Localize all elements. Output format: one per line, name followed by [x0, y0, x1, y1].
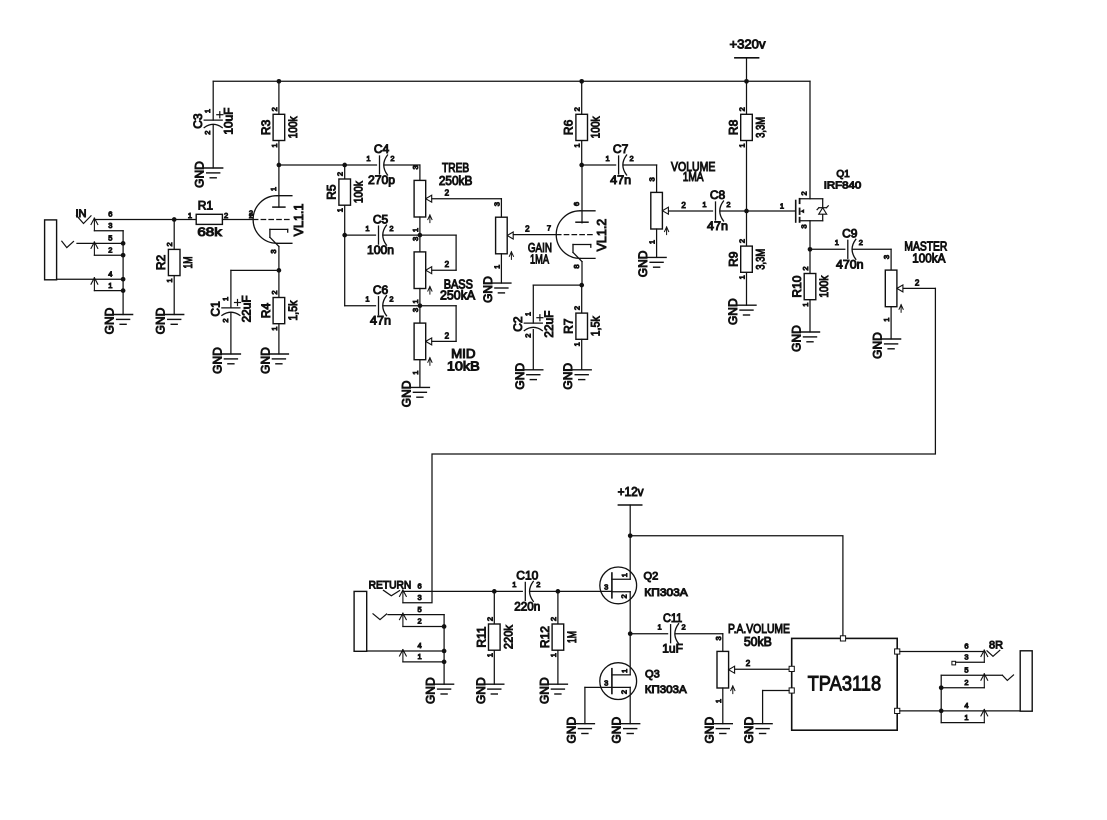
svg-text:47n: 47n: [707, 219, 728, 233]
svg-text:250kA: 250kA: [440, 288, 476, 302]
svg-text:2: 2: [738, 107, 747, 111]
svg-text:47n: 47n: [610, 173, 631, 187]
svg-text:GND: GND: [474, 677, 488, 704]
svg-text:3: 3: [604, 678, 608, 687]
svg-text:2: 2: [630, 154, 634, 163]
svg-text:1: 1: [411, 228, 420, 232]
svg-text:22uF: 22uF: [542, 311, 556, 338]
svg-text:3: 3: [648, 177, 657, 181]
svg-text:2: 2: [964, 678, 968, 687]
svg-text:1MA: 1MA: [530, 253, 549, 267]
svg-text:3: 3: [411, 308, 420, 312]
svg-text:2: 2: [682, 623, 686, 632]
svg-text:1: 1: [485, 653, 494, 657]
svg-text:2: 2: [573, 107, 582, 111]
svg-text:3: 3: [604, 583, 608, 592]
svg-text:GND: GND: [790, 325, 804, 352]
svg-text:GND: GND: [871, 332, 885, 359]
svg-text:1: 1: [835, 238, 839, 247]
svg-text:GND: GND: [742, 717, 756, 744]
svg-text:C11: C11: [663, 611, 683, 625]
svg-text:+12v: +12v: [618, 484, 644, 499]
svg-text:4: 4: [418, 641, 422, 650]
svg-text:R1: R1: [198, 199, 214, 213]
svg-text:2: 2: [203, 131, 212, 135]
svg-text:1: 1: [648, 240, 657, 244]
svg-text:1: 1: [801, 303, 810, 307]
svg-text:1,5k: 1,5k: [589, 315, 603, 336]
svg-text:C8: C8: [710, 188, 726, 202]
svg-text:2: 2: [619, 594, 628, 598]
svg-text:1: 1: [365, 224, 369, 233]
svg-text:1: 1: [573, 342, 582, 346]
svg-text:C3: C3: [191, 113, 205, 129]
svg-text:R8: R8: [727, 119, 741, 135]
svg-text:1: 1: [270, 143, 279, 147]
svg-text:10kB: 10kB: [447, 359, 480, 373]
svg-text:IRF840: IRF840: [824, 181, 862, 192]
svg-text:50kB: 50kB: [744, 635, 772, 649]
svg-text:C1: C1: [209, 301, 223, 317]
svg-text:1uF: 1uF: [662, 642, 683, 656]
svg-text:2: 2: [445, 331, 450, 340]
svg-text:R5: R5: [325, 184, 339, 200]
svg-text:10uF: 10uF: [222, 108, 236, 135]
svg-text:1: 1: [203, 109, 212, 113]
svg-text:1: 1: [418, 652, 422, 661]
svg-text:1: 1: [188, 211, 192, 220]
svg-text:C4: C4: [374, 142, 390, 156]
svg-text:C5: C5: [373, 212, 389, 226]
svg-text:R4: R4: [259, 303, 273, 319]
svg-text:1: 1: [606, 154, 610, 163]
svg-text:250kB: 250kB: [439, 174, 473, 188]
svg-text:КП303А: КП303А: [644, 587, 688, 599]
svg-text:GND: GND: [399, 380, 413, 407]
svg-text:1: 1: [165, 279, 174, 283]
svg-text:GND: GND: [154, 307, 168, 334]
svg-text:2: 2: [390, 154, 394, 163]
svg-text:1: 1: [573, 143, 582, 147]
svg-text:GND: GND: [537, 677, 551, 704]
svg-text:1: 1: [714, 699, 723, 703]
svg-text:Q1: Q1: [836, 169, 850, 180]
svg-text:R2: R2: [154, 255, 168, 271]
svg-text:R12: R12: [538, 626, 552, 648]
svg-text:1: 1: [882, 318, 891, 322]
svg-text:22uF: 22uF: [239, 295, 253, 322]
svg-text:1: 1: [702, 200, 706, 209]
svg-text:6: 6: [108, 210, 112, 219]
svg-text:3: 3: [108, 221, 112, 230]
svg-text:R10: R10: [790, 275, 804, 297]
svg-text:3,3M: 3,3M: [754, 117, 768, 138]
svg-text:КП303А: КП303А: [645, 684, 688, 696]
svg-text:8R: 8R: [989, 639, 1003, 651]
svg-text:2: 2: [681, 201, 686, 210]
svg-text:2: 2: [799, 191, 808, 195]
svg-text:TPA3118: TPA3118: [808, 672, 882, 696]
svg-text:100k: 100k: [589, 116, 603, 139]
svg-text:Q2: Q2: [644, 570, 659, 582]
svg-text:2: 2: [859, 238, 863, 247]
svg-text:2: 2: [573, 306, 582, 310]
svg-text:6: 6: [418, 582, 422, 591]
svg-text:R3: R3: [259, 119, 273, 135]
svg-text:GND: GND: [258, 347, 272, 374]
svg-text:C6: C6: [373, 283, 389, 297]
svg-text:3: 3: [492, 202, 501, 206]
svg-text:C2: C2: [511, 316, 525, 332]
svg-text:2: 2: [726, 200, 730, 209]
svg-text:2: 2: [445, 189, 450, 198]
svg-text:100kA: 100kA: [912, 251, 946, 265]
svg-text:2: 2: [389, 224, 393, 233]
svg-text:2: 2: [485, 617, 494, 621]
svg-text:1: 1: [549, 653, 558, 657]
svg-text:3,3M: 3,3M: [754, 249, 768, 270]
svg-text:2: 2: [336, 172, 345, 176]
svg-text:VL1.2: VL1.2: [595, 219, 609, 252]
svg-text:2: 2: [165, 242, 174, 246]
svg-text:5: 5: [418, 605, 422, 614]
svg-text:R9: R9: [727, 251, 741, 267]
svg-text:GND: GND: [702, 717, 716, 744]
svg-text:2: 2: [270, 290, 279, 294]
svg-text:3: 3: [964, 652, 968, 661]
svg-text:2: 2: [746, 659, 751, 668]
svg-text:2: 2: [523, 334, 532, 338]
svg-text:1: 1: [108, 281, 112, 290]
svg-text:3: 3: [269, 249, 278, 253]
svg-text:1: 1: [658, 623, 662, 632]
svg-text:1M: 1M: [181, 256, 195, 268]
svg-text:2: 2: [389, 295, 393, 304]
svg-text:6: 6: [964, 642, 968, 651]
svg-text:GND: GND: [424, 677, 438, 704]
svg-text:1MA: 1MA: [683, 170, 704, 184]
svg-text:2: 2: [738, 239, 747, 243]
svg-text:2: 2: [801, 266, 810, 270]
svg-text:GND: GND: [726, 298, 740, 325]
svg-text:GND: GND: [193, 161, 207, 188]
svg-text:2: 2: [536, 580, 540, 589]
svg-text:1: 1: [270, 327, 279, 331]
svg-text:8: 8: [572, 265, 581, 269]
svg-text:GND: GND: [513, 363, 527, 390]
svg-text:100k: 100k: [286, 116, 300, 139]
svg-text:R11: R11: [474, 626, 488, 647]
svg-text:1: 1: [964, 713, 968, 722]
svg-text:TREB: TREB: [442, 161, 469, 175]
svg-text:2: 2: [108, 245, 112, 254]
svg-text:GND: GND: [564, 717, 578, 744]
svg-text:3: 3: [411, 237, 420, 241]
svg-text:4: 4: [964, 701, 968, 710]
svg-text:2: 2: [549, 617, 558, 621]
svg-text:2: 2: [249, 211, 253, 220]
svg-text:C7: C7: [613, 142, 629, 156]
svg-text:5: 5: [964, 666, 968, 675]
svg-text:68k: 68k: [197, 225, 223, 239]
svg-text:1: 1: [738, 143, 747, 147]
svg-text:3: 3: [882, 255, 891, 259]
svg-text:220n: 220n: [514, 599, 540, 613]
svg-text:1: 1: [411, 299, 420, 303]
svg-text:7: 7: [547, 224, 551, 233]
svg-text:270p: 270p: [368, 173, 395, 187]
svg-text:220k: 220k: [501, 624, 515, 649]
svg-text:100n: 100n: [367, 243, 394, 257]
svg-text:VL1.1: VL1.1: [292, 204, 306, 237]
svg-text:GND: GND: [610, 717, 624, 744]
svg-text:3: 3: [714, 636, 723, 640]
svg-text:6: 6: [572, 202, 581, 206]
svg-text:4: 4: [108, 269, 112, 278]
svg-text:2: 2: [619, 690, 628, 694]
svg-text:GND: GND: [481, 276, 495, 303]
svg-text:1: 1: [620, 573, 629, 577]
svg-text:Q3: Q3: [645, 668, 660, 680]
svg-text:3: 3: [411, 165, 420, 169]
svg-text:GND: GND: [210, 347, 224, 374]
svg-text:1: 1: [512, 580, 516, 589]
svg-text:1: 1: [269, 187, 278, 191]
svg-text:3: 3: [418, 593, 422, 602]
svg-text:1,5k: 1,5k: [286, 300, 300, 321]
svg-text:R6: R6: [562, 119, 576, 135]
svg-text:2: 2: [224, 211, 228, 220]
svg-text:+320v: +320v: [730, 37, 766, 52]
svg-text:P.A.VOLUME: P.A.VOLUME: [728, 622, 790, 636]
svg-text:GND: GND: [636, 250, 650, 277]
svg-text:R7: R7: [562, 318, 576, 334]
svg-text:1: 1: [336, 208, 345, 212]
svg-text:1: 1: [523, 312, 532, 316]
svg-text:2: 2: [525, 225, 530, 234]
svg-text:2: 2: [915, 278, 920, 287]
svg-text:470n: 470n: [836, 257, 864, 271]
svg-text:IN: IN: [76, 208, 87, 220]
svg-text:1: 1: [365, 295, 369, 304]
svg-text:47n: 47n: [370, 314, 391, 328]
svg-text:1: 1: [738, 275, 747, 279]
svg-text:2: 2: [418, 617, 422, 626]
svg-text:1M: 1M: [565, 631, 579, 643]
svg-text:5: 5: [108, 234, 112, 243]
svg-text:2: 2: [445, 260, 450, 269]
svg-text:3: 3: [799, 225, 808, 229]
svg-text:1: 1: [780, 202, 784, 211]
svg-text:GND: GND: [561, 363, 575, 390]
svg-text:1: 1: [620, 669, 629, 673]
svg-text:RETURN: RETURN: [369, 579, 412, 591]
svg-text:1: 1: [366, 154, 370, 163]
svg-text:100k: 100k: [352, 180, 366, 203]
svg-text:1: 1: [411, 371, 420, 375]
svg-text:2: 2: [270, 107, 279, 111]
svg-text:1: 1: [221, 297, 230, 301]
svg-text:1: 1: [492, 265, 501, 269]
svg-text:GND: GND: [103, 307, 117, 334]
svg-text:2: 2: [221, 318, 230, 322]
svg-text:C9: C9: [842, 227, 858, 241]
svg-text:100k: 100k: [817, 275, 831, 298]
